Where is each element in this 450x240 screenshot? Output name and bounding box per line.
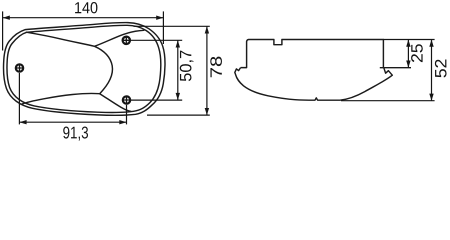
- dimension line 52: [431, 40, 433, 101]
- dimension line 50,7: [177, 40, 179, 100]
- front view inner outline: [7, 25, 161, 112]
- arrow 140 right: [156, 16, 163, 20]
- extension line 140 right: [162, 11, 164, 44]
- extension line 140 left: [2, 11, 4, 50]
- extension line 50,7 top: [130, 39, 182, 41]
- gasket lips and lens profile arc: [235, 68, 392, 101]
- side view outline: [235, 40, 411, 101]
- label 78: [210, 57, 222, 78]
- arrow 50,7 bottom: [176, 93, 180, 100]
- arrow 25 top: [406, 40, 410, 47]
- extension line 91,3 left: [18, 73, 20, 125]
- dimension 78: [134, 26, 210, 115]
- arrow 140 left: [3, 16, 10, 20]
- dimension line 25: [407, 40, 409, 68]
- arrow 50,7 top: [176, 40, 180, 47]
- label 140: [75, 2, 97, 13]
- extension line 50,7 bottom: [131, 99, 183, 101]
- label 52: [435, 60, 447, 78]
- extension line 78 top: [134, 25, 210, 27]
- extension line 25/52 top: [383, 39, 434, 41]
- extension line 52 bottom: [341, 100, 435, 102]
- lens bottom-left edge: [22, 93, 100, 104]
- screw S2 top-right: [123, 37, 130, 44]
- extension line 91,3 right: [126, 105, 128, 125]
- dimension 91,3: [19, 73, 126, 125]
- screw S3 bottom-right: [123, 96, 130, 103]
- screw S1 left: [16, 64, 23, 71]
- dimension 52: [341, 40, 435, 101]
- arrow 91,3 right: [119, 120, 126, 124]
- label 50,7: [180, 51, 194, 82]
- housing bottom edge (also 25 reference): [380, 67, 411, 69]
- lens top branch to outline: [95, 30, 144, 46]
- arrow 52 top: [429, 40, 433, 47]
- dimension line 91,3: [19, 121, 126, 123]
- label 91,3: [63, 127, 88, 141]
- arrow 91,3 left: [19, 120, 26, 124]
- front view outer outline: [4, 23, 165, 116]
- dimension 140: [3, 11, 164, 50]
- dimension 25: [383, 40, 434, 68]
- extension line 78 bottom: [147, 114, 210, 116]
- lens central bulge right edge: [95, 46, 113, 93]
- dimension line 140: [3, 17, 164, 19]
- arrow 52 bottom: [429, 94, 433, 101]
- arrow 78 bottom: [205, 108, 209, 115]
- arrow 25 bottom: [406, 60, 410, 67]
- label 25: [411, 44, 423, 62]
- housing top/left/right edges with notch: [241, 40, 384, 68]
- lens bottom branch to outline: [100, 94, 131, 112]
- dimension line 78: [206, 26, 208, 115]
- lens top-left edge: [26, 32, 94, 46]
- arrow 78 top: [205, 26, 209, 33]
- dimension 50,7: [130, 40, 182, 100]
